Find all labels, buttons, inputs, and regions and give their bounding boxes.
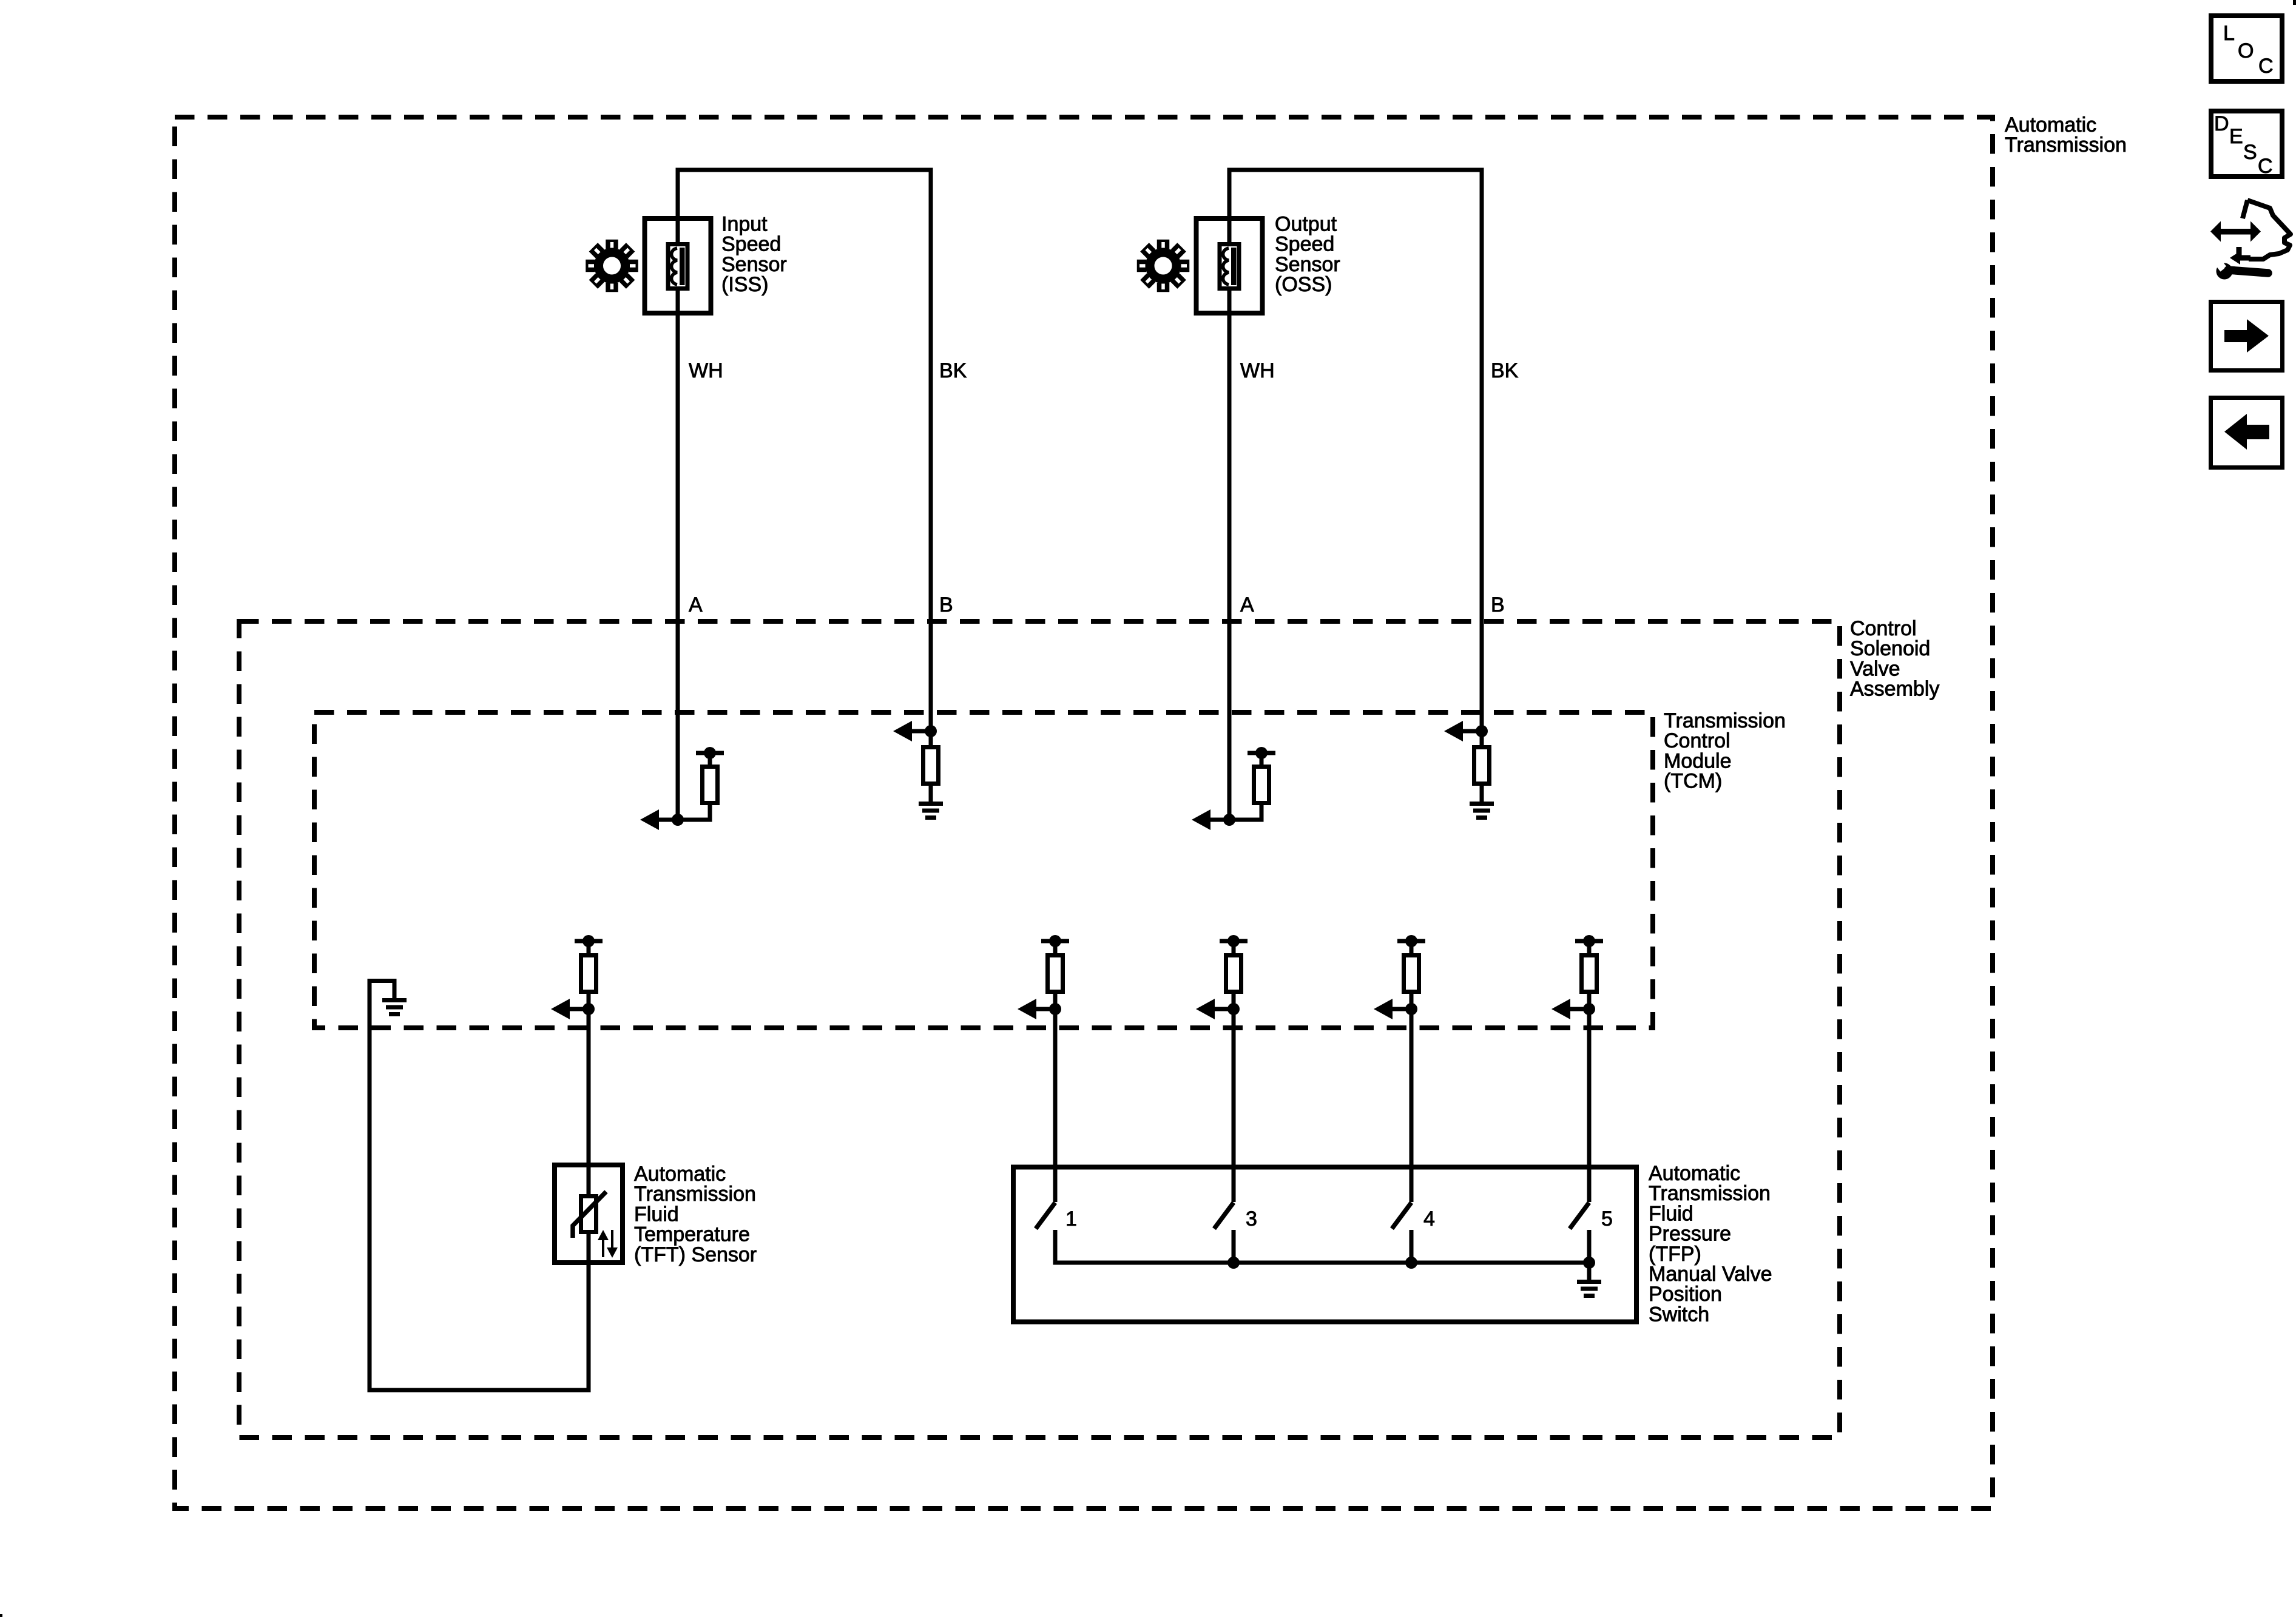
voltage reference bar <box>1397 939 1425 944</box>
ground (TCM) <box>382 998 407 1002</box>
DESC navigation box <box>2211 111 2282 177</box>
junction node <box>1476 725 1488 737</box>
input arrow into TCM <box>640 809 659 830</box>
svg-text:BK: BK <box>1491 359 1519 382</box>
wire: OSS WH <box>1227 168 1232 820</box>
outer dashed box: Automatic Transmission <box>175 117 1993 1508</box>
voltage reference bar <box>1248 751 1275 755</box>
sensor box <box>645 218 711 313</box>
svg-text:WH: WH <box>689 359 723 382</box>
svg-text:Switch: Switch <box>1649 1303 1709 1326</box>
input arrow into TCM <box>1551 999 1570 1019</box>
bent arrow <box>2237 247 2250 258</box>
wire: TFT signal down to sensor <box>587 1009 591 1165</box>
svg-text:3: 3 <box>1246 1207 1257 1230</box>
input arrow into TCM <box>1444 721 1463 741</box>
input arrow into TCM <box>1192 809 1210 830</box>
junction node (ground) <box>1583 1257 1595 1269</box>
svg-text:1: 1 <box>1065 1207 1077 1230</box>
switch blade <box>1214 1203 1234 1229</box>
switch blade <box>1036 1203 1055 1229</box>
wire <box>1587 941 1592 953</box>
voltage reference bar <box>1575 939 1603 944</box>
svg-text:L: L <box>2223 22 2235 45</box>
switch contact wire <box>1053 1009 1058 1202</box>
voltage reference bar <box>1220 939 1248 944</box>
dashed box: Transmission Control Module (TCM) <box>314 712 1653 1028</box>
voltage reference bar <box>1041 939 1069 944</box>
pull-up resistor <box>581 956 596 992</box>
wire: ISS BK <box>929 168 933 732</box>
left arrow <box>2247 425 2269 439</box>
junction node (switch 3) <box>1227 1257 1240 1269</box>
wire <box>659 818 712 822</box>
switch lower contact <box>1053 1230 1058 1263</box>
wire <box>1410 941 1414 953</box>
thermistor element <box>581 1197 596 1232</box>
Automatic Transmission Fluid Temperature (TFT) Sensor box <box>555 1165 623 1263</box>
sensor element (inductive pickup) <box>668 245 687 289</box>
wire <box>1210 818 1264 822</box>
svg-text:D: D <box>2214 112 2229 135</box>
sensor element (inductive pickup) <box>1220 245 1239 289</box>
switch common bus <box>1053 1261 1058 1263</box>
ground <box>1470 802 1494 806</box>
wire: OSS BK <box>1480 168 1484 732</box>
wire: ISS WH <box>676 168 680 820</box>
gear icon (OSS) <box>1137 240 1190 292</box>
switch contact wire <box>1410 1009 1414 1202</box>
junction node <box>672 814 684 826</box>
junction node <box>1049 1003 1061 1015</box>
switch contact wire <box>1587 1009 1592 1202</box>
ground (TFP switch) <box>1577 1280 1601 1284</box>
svg-text:BK: BK <box>939 359 967 382</box>
wire <box>1463 729 1482 734</box>
back navigation box <box>2211 398 2283 468</box>
sensor box <box>1197 218 1263 313</box>
resistor <box>1474 748 1490 784</box>
input arrow into TCM <box>1018 999 1036 1019</box>
input arrow into TCM <box>551 999 570 1019</box>
switch lower contact <box>1410 1230 1414 1263</box>
svg-text:5: 5 <box>1601 1207 1613 1230</box>
TCM sensor ground return <box>370 979 394 983</box>
svg-text:B: B <box>939 593 953 616</box>
right arrow <box>2224 330 2247 342</box>
svg-text:(TCM): (TCM) <box>1664 770 1722 793</box>
switch blade <box>1392 1203 1411 1229</box>
svg-text:C: C <box>2258 55 2274 78</box>
svg-text:(OSS): (OSS) <box>1275 273 1332 296</box>
svg-text:4: 4 <box>1423 1207 1435 1230</box>
ground <box>919 802 943 806</box>
svg-text:Assembly: Assembly <box>1850 678 1939 701</box>
resistor <box>923 748 939 784</box>
svg-text:(TFT) Sensor: (TFT) Sensor <box>634 1243 757 1266</box>
pull-up resistor <box>1404 956 1419 992</box>
junction node (switch 4) <box>1405 1257 1417 1269</box>
pull-up resistor <box>1226 956 1241 992</box>
junction node <box>1223 814 1235 826</box>
svg-text:B: B <box>1491 593 1505 616</box>
connector view icon (double arrow, plug outline, wrench) <box>2210 200 2291 280</box>
wire: ISS loop top <box>678 168 931 172</box>
dashed box: Control Solenoid Valve Assembly <box>239 621 1840 1437</box>
switch lower contact <box>1232 1230 1236 1263</box>
junction node <box>582 1003 595 1015</box>
svg-text:O: O <box>2238 39 2254 62</box>
page corner mark (top right) <box>2293 0 2296 5</box>
LOC navigation box <box>2211 16 2282 81</box>
svg-text:C: C <box>2258 155 2273 178</box>
pull-up resistor <box>1582 956 1597 992</box>
input arrow into TCM <box>1196 999 1215 1019</box>
svg-text:A: A <box>689 593 703 616</box>
pull-up resistor <box>703 767 718 803</box>
input arrow into TCM <box>893 721 912 741</box>
svg-text:Transmission: Transmission <box>2005 133 2127 157</box>
wire <box>1053 941 1058 953</box>
pull-up resistor <box>1048 956 1063 992</box>
svg-text:WH: WH <box>1240 359 1275 382</box>
page corner mark (bottom left) <box>0 1614 2 1617</box>
forward navigation box <box>2211 302 2283 371</box>
switch contact wire <box>1232 1009 1236 1202</box>
junction node <box>925 725 937 737</box>
wire <box>587 941 591 953</box>
voltage reference bar <box>696 751 724 755</box>
svg-text:(ISS): (ISS) <box>721 273 768 296</box>
switch blade <box>1570 1203 1589 1229</box>
switch lower contact <box>1587 1230 1592 1263</box>
wire <box>912 729 931 734</box>
svg-text:E: E <box>2229 125 2243 148</box>
voltage reference bar <box>575 939 603 944</box>
junction node <box>1583 1003 1595 1015</box>
gear icon (ISS) <box>586 240 638 292</box>
junction node <box>1227 1003 1240 1015</box>
up/down arrows (variable) <box>602 1240 604 1257</box>
svg-text:A: A <box>1240 593 1254 616</box>
svg-text:S: S <box>2243 141 2257 164</box>
Automatic Transmission Fluid Pressure (TFP) Manual Valve Position Switch box <box>1013 1167 1636 1322</box>
wire to ground <box>1587 1263 1592 1280</box>
wire <box>1232 941 1236 953</box>
wire: TFT return loop <box>587 1263 591 1390</box>
wire: OSS loop top <box>1229 168 1482 172</box>
input arrow into TCM <box>1374 999 1393 1019</box>
pull-up resistor <box>1254 767 1269 803</box>
junction node <box>1405 1003 1417 1015</box>
